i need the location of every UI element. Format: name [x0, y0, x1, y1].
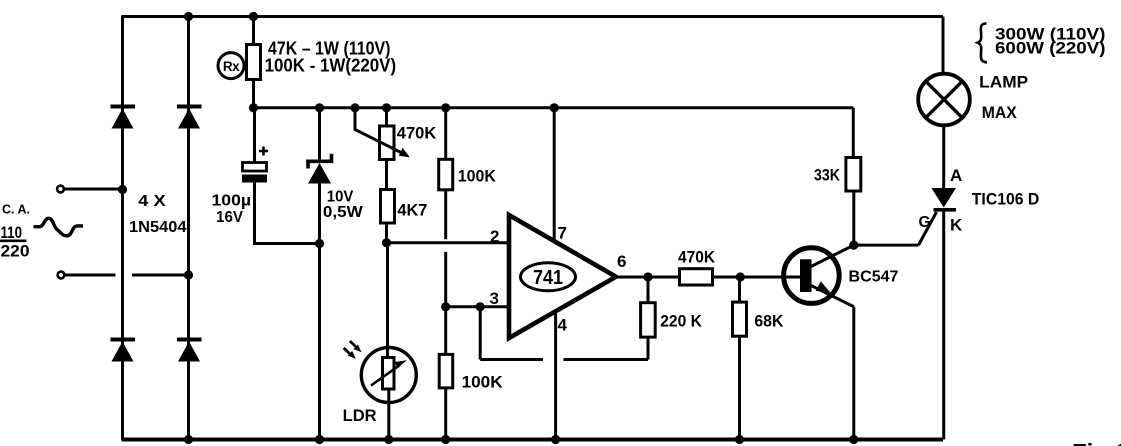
resistor R6 220K — [641, 303, 656, 337]
svg-text:4 X: 4 X — [138, 193, 166, 210]
svg-text:100K - 1W(220V): 100K - 1W(220V) — [265, 56, 397, 76]
trimpot P1 wiper arrow — [355, 109, 410, 158]
node bottom bus / branch 2 — [184, 435, 193, 444]
trimpot P1 470K body — [380, 126, 395, 160]
node pin2 / LDR junction — [382, 238, 391, 247]
wire top bus to lamp — [942, 17, 945, 74]
wire Rx branch top — [252, 17, 255, 45]
svg-text:LDR: LDR — [343, 406, 377, 425]
svg-text:470K: 470K — [397, 124, 437, 143]
svg-text:100µ: 100µ — [212, 193, 252, 210]
label Rx circled — [218, 53, 244, 79]
svg-text:G: G — [919, 214, 931, 231]
svg-text:BC547: BC547 — [849, 269, 899, 286]
svg-text:4K7: 4K7 — [397, 201, 427, 220]
node bottom bus / 68K — [735, 435, 744, 444]
svg-text:600W (220V): 600W (220V) — [995, 39, 1106, 58]
svg-text:100K: 100K — [462, 373, 504, 392]
node collector / 33K / gate — [849, 241, 858, 250]
node capacitor/zener junction — [315, 239, 324, 248]
transistor Q1 BC547 — [784, 245, 854, 307]
svg-text:Fig.1: Fig.1 — [1072, 439, 1121, 446]
node terminal upper junction — [118, 185, 127, 194]
wire trimmer to 4K7 — [385, 160, 388, 190]
node pin3 divider junction — [441, 302, 450, 311]
LDR photoresistor — [361, 348, 416, 403]
node terminal lower junction — [184, 270, 193, 279]
node feedback tap on pin3 wire — [476, 302, 485, 311]
wire 100K branch top — [444, 108, 447, 160]
wire feedback rise to 220K — [647, 337, 650, 359]
terminal AC input lower — [58, 272, 65, 279]
wire zener branch top — [318, 108, 321, 162]
node rail / 100K branch — [441, 103, 450, 112]
svg-text:0,5W: 0,5W — [323, 204, 364, 221]
node bottom bus / LDR — [384, 435, 393, 444]
wire 68K top — [738, 277, 741, 302]
wire 4K7 to pin2 node — [385, 223, 388, 243]
wire op-amp pin 3 — [446, 305, 510, 308]
wire capacitor bottom to zener branch — [255, 183, 320, 244]
curly brace — [978, 24, 988, 63]
svg-text:220: 220 — [1, 242, 30, 260]
wire op-amp pin 6 output — [616, 276, 680, 279]
wire 68K to bottom bus — [738, 336, 741, 439]
resistor R5 470K output — [680, 269, 713, 285]
svg-text:220 K: 220 K — [660, 312, 702, 331]
wire trimmer branch top — [385, 108, 388, 126]
wire LDR top — [386, 243, 389, 348]
lamp — [918, 74, 970, 126]
wire DC rail — [254, 106, 854, 109]
svg-text:1N5404: 1N5404 — [129, 219, 187, 236]
node bottom bus / pin4 — [551, 435, 560, 444]
node bottom bus / emitter — [849, 435, 858, 444]
wire 100K lower to bottom bus — [444, 388, 447, 440]
svg-text:100K: 100K — [458, 166, 497, 185]
wire left vertical / diode branch 1 — [121, 17, 124, 440]
node output / 220K — [643, 272, 652, 281]
diode D3 1N5404 — [111, 340, 136, 362]
wire divider to 100K lower — [444, 307, 447, 355]
node bottom bus / 100K — [441, 435, 450, 444]
resistor Rx — [247, 45, 261, 80]
fraction bar — [0, 240, 27, 243]
svg-text:A: A — [950, 166, 962, 185]
wire terminal lower to branch 2 — [65, 274, 189, 277]
node top bus / Rx branch — [249, 12, 258, 21]
svg-text:C. A.: C. A. — [2, 202, 30, 217]
wire terminal upper to branch 1 — [64, 188, 123, 191]
svg-text:68K: 68K — [754, 312, 784, 331]
svg-text:4: 4 — [558, 316, 568, 335]
wire op-amp pin 4 to bottom bus — [554, 311, 557, 440]
svg-text:Rx: Rx — [223, 59, 240, 74]
svg-text:6: 6 — [617, 252, 626, 271]
diode D1 1N5404 — [111, 107, 136, 129]
wire emitter to bottom bus — [852, 307, 855, 440]
svg-text:470K: 470K — [678, 248, 716, 267]
node bottom bus / zener branch — [315, 435, 324, 444]
wire top bus — [122, 15, 944, 18]
diode D4 1N5404 — [177, 340, 202, 362]
wire gate diagonal — [919, 212, 937, 245]
wire op-amp pin 2 — [387, 241, 511, 244]
svg-text:16V: 16V — [216, 209, 243, 226]
node rail / Rx / capacitor — [249, 103, 258, 112]
terminal AC input upper — [57, 186, 64, 193]
svg-text:K: K — [950, 216, 963, 235]
wire zener to bottom bus — [318, 182, 321, 440]
resistor R3 100K upper — [439, 159, 453, 190]
node rail / trimmer branch — [382, 103, 391, 112]
wire feedback horizontal right segment — [564, 358, 649, 361]
svg-text:MAX: MAX — [982, 103, 1018, 122]
op-amp U1 741 — [509, 215, 616, 338]
wire diode branch 2 — [187, 17, 190, 440]
wire feedback horizontal left segment — [480, 358, 543, 361]
svg-text:7: 7 — [558, 224, 567, 243]
capacitor C1 100u 16V — [242, 147, 268, 183]
diode D2 1N5404 — [177, 107, 202, 129]
wire bottom bus — [122, 438, 944, 442]
resistor R7 68K — [733, 302, 747, 336]
wire gate horizontal — [854, 244, 919, 247]
wire 33K to rail corner — [852, 108, 855, 158]
resistor R8 33K — [846, 158, 861, 192]
wire 220K top — [647, 277, 650, 303]
svg-text:TIC106 D: TIC106 D — [972, 190, 1040, 208]
node rail / wiper — [350, 103, 359, 112]
svg-text:LAMP: LAMP — [979, 72, 1028, 91]
node rail / zener — [315, 103, 324, 112]
wire op-amp pin 7 to rail — [553, 108, 556, 242]
wire collector to 33K — [852, 191, 855, 245]
wire feedback drop — [479, 307, 482, 360]
zener diode Z1 10V 0.5W — [308, 154, 332, 184]
op-amp 741 ellipse label — [521, 263, 576, 291]
wire 100K to pin3 node — [444, 190, 447, 307]
resistor R2 4K7 — [381, 190, 395, 224]
svg-text:3: 3 — [490, 289, 499, 308]
node 470K / 68K — [736, 272, 745, 281]
wire Rx to rail — [252, 80, 255, 108]
svg-text:33K: 33K — [814, 166, 841, 185]
LDR light arrows — [344, 341, 362, 359]
wire capacitor top — [253, 108, 256, 163]
resistor R4 100K lower — [439, 354, 453, 388]
node top bus / branch 2 — [184, 12, 193, 21]
SCR TIC106D — [932, 126, 957, 440]
wire 470K to base — [713, 276, 801, 279]
sine symbol — [34, 218, 84, 236]
node rail / pin7 — [550, 103, 559, 112]
svg-text:2: 2 — [490, 227, 499, 246]
svg-text:741: 741 — [533, 267, 563, 289]
wire LDR bottom — [387, 403, 390, 440]
